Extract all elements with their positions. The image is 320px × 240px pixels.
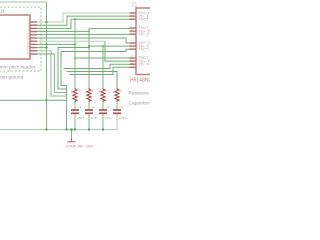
svg-text:2mm pitch header: 2mm pitch header [0, 65, 36, 71]
capacitor C4 [113, 110, 121, 113]
branch v89 down to R3 via x103 [102, 45, 104, 47]
svg-text:75: 75 [119, 89, 123, 93]
connector U1 box [0, 15, 30, 59]
wire pin16 row44 to R1 column [37, 43, 75, 45]
svg-text:R1: R1 [70, 89, 74, 93]
wire pin8 to v89 [37, 30, 89, 32]
T1 pin stubs [130, 13, 137, 67]
transformer T1 box [136, 8, 156, 75]
wire pin10 to T1 pin5 straight [37, 33, 130, 35]
row71.5 to R4 via x117 [67, 72, 118, 89]
svg-text:R2: R2 [84, 89, 88, 93]
svg-text:100N: 100N [119, 116, 126, 120]
svg-text:75: 75 [105, 89, 109, 93]
resistor R3 [101, 88, 105, 102]
branch row58 from R1 column [74, 57, 76, 59]
svg-text:R3: R3 [98, 89, 102, 93]
svg-text:H5148NL: H5148NL [130, 78, 150, 84]
svg-text:C2: C2 [92, 105, 96, 109]
svg-text:Capacitors: Capacitors [129, 101, 151, 107]
dashed group boundary [0, 7, 41, 71]
branch v89 up to T1 row28 and down to R2 [88, 30, 90, 32]
svg-text:smart ground: smart ground [0, 75, 24, 81]
resistor R2 [87, 88, 91, 102]
gnd bus corner to collector row99.5 [45, 99, 47, 101]
svg-text:C4: C4 [120, 105, 124, 109]
svg-text:TDCT_3: TDCT_3 [139, 47, 151, 51]
ground symbol [68, 139, 76, 142]
svg-text:R4: R4 [112, 89, 116, 93]
resistor R4 [115, 88, 119, 102]
svg-text:Resistors 7: Resistors 7 [129, 91, 151, 97]
capacitor C3 [99, 110, 107, 113]
wire GND top-left horizontal [0, 1, 47, 3]
wire pin4 to T1 pin2 [37, 16, 130, 25]
svg-text:TDCT_1: TDCT_1 [139, 17, 151, 21]
wire pin6 to T1 pin3 TDCT_1 [37, 19, 130, 28]
wire pin18 short to gnd bus [37, 47, 47, 49]
S-wire row47.5 to v89 and down x58 to collector row89 [58, 48, 89, 90]
svg-text:STARLINK GND: STARLINK GND [66, 145, 94, 149]
gnd tap wire [71, 130, 73, 139]
wire pin22 down x54.5 to collector row92.5 [37, 53, 55, 55]
row74.5 to T1 row67 via x113 [70, 67, 130, 74]
svg-text:75: 75 [91, 89, 95, 93]
wire pin20 down x51 to collector row96 [37, 50, 51, 52]
rail GND bottom [0, 114, 117, 129]
branch v89 to T1 row46 [88, 45, 90, 47]
branch TDCT_1 down to R1 [74, 18, 76, 20]
svg-text:100N: 100N [91, 116, 98, 120]
T1 pin labels [139, 11, 153, 66]
svg-text:C1: C1 [78, 105, 82, 109]
svg-text:TD-_2: TD-_2 [139, 32, 149, 36]
S-wire row51.5 jog to T1 row49 and down x61 to collector row85.5 [61, 49, 130, 85]
wire GND vertical bus x46.5 [46, 2, 48, 130]
capacitor C1 [71, 110, 79, 113]
wire pin2 to T1 pin1 (pale) [37, 13, 130, 22]
svg-text:75: 75 [77, 89, 81, 93]
wire pin14 jog down to T1 row61 [37, 40, 105, 42]
capacitor C2 [85, 110, 93, 113]
svg-text:120N: 120N [77, 116, 84, 120]
resistor R1 [73, 88, 77, 102]
svg-text:U1: U1 [0, 9, 5, 15]
svg-text:C3: C3 [106, 105, 110, 109]
svg-text:120N: 120N [105, 116, 112, 120]
U1 pin stubs [30, 22, 37, 54]
wires resistor to cap [75, 102, 117, 109]
junction at bus pin2 [45, 21, 47, 23]
T1 pin numbers [131, 11, 134, 64]
wires caps to rail [75, 114, 103, 129]
row68.5 to T1 row64 via x110 [64, 64, 130, 68]
wire pin12 jog to T1 row43 [37, 38, 130, 43]
svg-text:TD-_4: TD-_4 [139, 62, 149, 66]
collector vertical to rail [66, 86, 68, 130]
U1 pin numbers [26, 20, 29, 55]
